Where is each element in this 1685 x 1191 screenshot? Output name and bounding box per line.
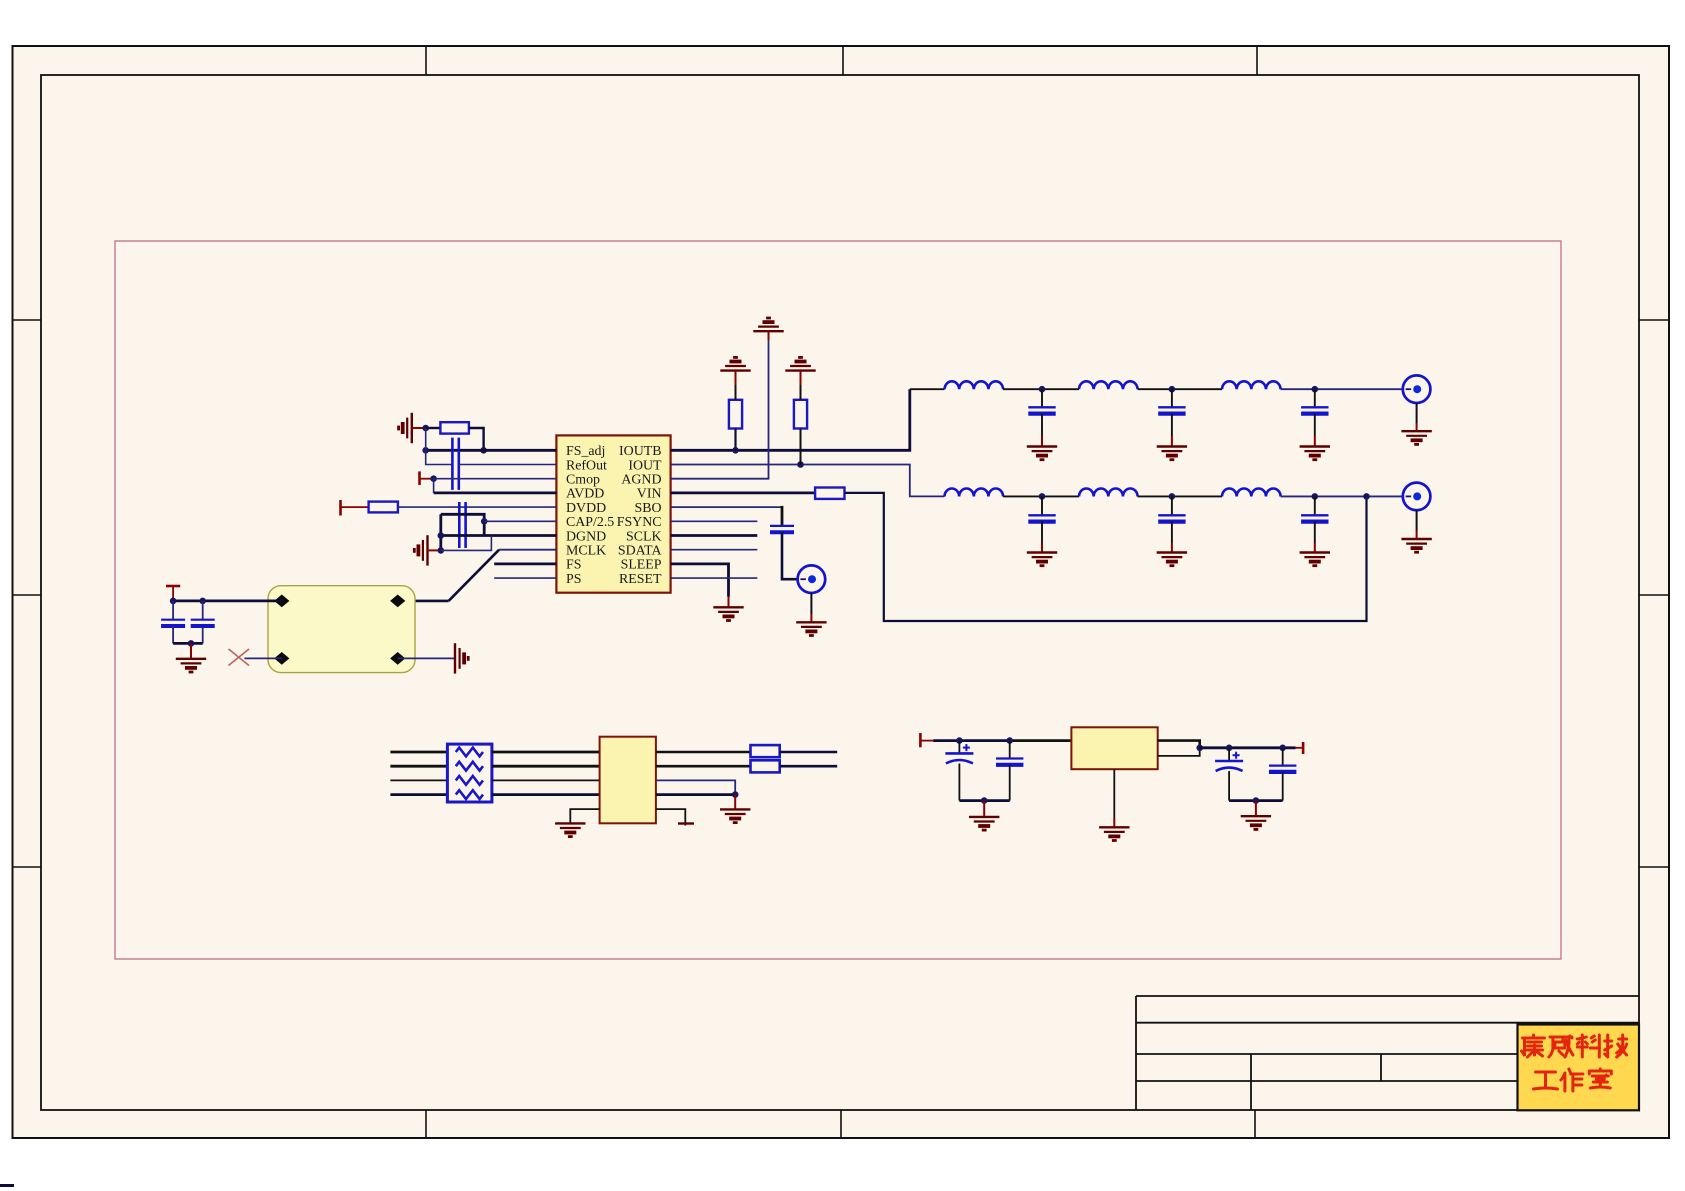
ground GND23 [1241, 816, 1271, 829]
junction rail right [1253, 797, 1260, 804]
capacitor C9 [1028, 515, 1055, 521]
svg-text:IOUT: IOUT [628, 458, 662, 473]
wire to GND18 [734, 795, 736, 810]
wire U2 out row2 [656, 765, 751, 768]
ground GND19 (U2 left) [555, 823, 585, 836]
ground GND6 (inverted, above R4) [785, 357, 815, 370]
power port bar (3.3V out) [1302, 742, 1305, 754]
wire AGND [671, 340, 769, 479]
wire CON2 ground lead [810, 593, 812, 614]
title logo text line2 工作室 [1534, 1069, 1612, 1091]
wire U3 gnd pin [1113, 769, 1115, 818]
svg-text:IOUTB: IOUTB [619, 444, 661, 459]
zone tick right 1 [1639, 319, 1669, 321]
wire U2 gnd right [656, 809, 685, 825]
wire R7 out [780, 765, 838, 768]
crystal pin diamond 4 [390, 652, 405, 665]
inductor L5 [1079, 489, 1138, 497]
connector CON1 [1403, 375, 1431, 403]
wire MCLK [499, 549, 556, 551]
power port bar (crystal VCC) [166, 585, 180, 588]
capacitor C6 ground lead [1041, 414, 1043, 436]
capacitor C11 ground lead [1314, 522, 1316, 543]
capacitor C9 lead [1041, 496, 1043, 515]
capacitor C10 ground lead [1171, 522, 1173, 543]
zone tick bottom 1 [425, 1110, 427, 1138]
svg-text:FS_adj: FS_adj [566, 444, 605, 459]
capacitor C15 lead2 [1282, 772, 1284, 801]
capacitor C12 lead [958, 741, 960, 754]
zone tick right 3 [1639, 866, 1669, 868]
resistor R2 [369, 502, 398, 513]
wire CON1 ground lead [1416, 403, 1418, 423]
wire MCLK diagonal [449, 550, 500, 601]
ground GND2 (rotated, DGND) [414, 535, 427, 565]
ground bar GND20 (U2 right) [678, 822, 694, 824]
wire PS stub [494, 577, 556, 579]
wire CAP/2.5 loop [441, 514, 484, 535]
wire U2 out row1 [656, 751, 751, 754]
inductor L2 [1079, 381, 1138, 389]
wire cap bottom rail [173, 642, 203, 645]
no-connect X [229, 649, 250, 666]
zone tick left 1 [13, 319, 42, 321]
junction C7 [1169, 386, 1176, 393]
capacitor C13 [996, 759, 1023, 765]
svg-text:CAP/2.5: CAP/2.5 [566, 515, 614, 530]
wire IOUT [671, 465, 945, 497]
ground GND12 [1300, 447, 1330, 460]
junction rail left [981, 797, 988, 804]
wire out lead [1296, 747, 1304, 749]
bus wire D1 [390, 765, 447, 768]
svg-text:Cmop: Cmop [566, 473, 600, 488]
wire SCLK stub [671, 534, 758, 537]
connector CON2 [798, 565, 826, 593]
wire U2 out row4 [656, 793, 735, 796]
power port bar (VIN supply) [919, 733, 922, 747]
ground GND10 [1027, 447, 1057, 460]
junction C6 [1039, 386, 1046, 393]
zone tick top 1 [425, 46, 427, 75]
zone tick bottom 3 [1254, 1110, 1256, 1138]
wire out rail [1200, 746, 1296, 749]
svg-text:SLEEP: SLEEP [621, 558, 662, 573]
IC U2 body [600, 737, 656, 824]
wire DVDD [398, 506, 557, 508]
svg-text:MCLK: MCLK [566, 544, 606, 559]
wire U2 out row3 [656, 780, 735, 794]
inductor L6 [1222, 489, 1281, 497]
resistor pack RP1 [447, 744, 492, 802]
wire L3-CON1 [1281, 388, 1403, 390]
junction FS_adj left [422, 447, 429, 454]
capacitor C15 lead [1282, 748, 1284, 766]
resistor R3 lead top [735, 385, 737, 400]
wire RESET stub [671, 577, 758, 579]
capacitor C7 ground lead [1171, 414, 1173, 436]
svg-text:PS: PS [566, 572, 581, 587]
title block table [1136, 996, 1639, 1110]
junction C14 [1226, 745, 1233, 752]
capacitor C13 lead [1009, 741, 1011, 759]
junction C15 [1279, 745, 1286, 752]
inductor L3 [1222, 381, 1281, 389]
junction R3 tap [732, 447, 739, 454]
ground GND14 [1027, 553, 1057, 566]
resistor R6 [751, 745, 780, 757]
junction C11 [1312, 493, 1319, 500]
junction U3 out [1196, 745, 1203, 752]
bus wire D0 [390, 751, 447, 754]
junction rows 3-4 [732, 791, 739, 798]
wire L5-L6 [1138, 495, 1222, 497]
capacitor C2 (tall plates) [458, 502, 461, 548]
wire node A down to RefOut [426, 428, 453, 465]
power port bar (DVDD) [339, 500, 342, 516]
junction C10 [1169, 493, 1176, 500]
junction VIN return [1363, 493, 1370, 500]
wire FS_adj [426, 449, 557, 452]
capacitor C6 [1028, 407, 1055, 413]
svg-text:DVDD: DVDD [566, 501, 606, 516]
crystal module Y1 [268, 586, 415, 673]
ground GND17 (CON3) [1401, 539, 1431, 552]
power port bar (Cmop) [418, 471, 421, 485]
wire cap rail left [959, 799, 1009, 802]
ground GND3 (crystal caps) [176, 659, 206, 672]
wire crystal supply [173, 600, 282, 603]
bus wire D2 [390, 779, 447, 781]
ground GND11 [1157, 447, 1187, 460]
title logo text line1 康威科技 [1522, 1035, 1627, 1057]
capacitor C7 [1158, 407, 1185, 413]
ground GND4 (rotated right) [455, 643, 468, 673]
zone tick top 2 [842, 46, 844, 75]
svg-text:VIN: VIN [637, 487, 662, 502]
wire AGND red tip [768, 331, 770, 340]
capacitor C8 ground lead [1314, 414, 1316, 436]
capacitor C14 lead2 [1228, 771, 1230, 801]
svg-text:FS: FS [566, 558, 581, 573]
wire RefOut [459, 464, 557, 466]
resistor R7 [751, 760, 780, 772]
wire Cmop lead [420, 478, 434, 480]
wire L1-L2 [1003, 388, 1079, 390]
bus wire D3 [390, 793, 447, 796]
zone tick right 2 [1639, 594, 1669, 596]
capacitor C4 lead [202, 601, 204, 620]
wire L2-L3 [1138, 388, 1222, 390]
inductor L1 [945, 381, 1004, 389]
wire RP1-U2 row1 [492, 751, 600, 754]
wire SDATA stub [671, 549, 758, 551]
wire rail to GND23 [1255, 801, 1257, 817]
wire SLEEP ground lead [728, 597, 730, 608]
wire Cmop [434, 478, 557, 480]
ground GND18 [720, 809, 750, 822]
capacitor C8 [1301, 407, 1328, 413]
capacitor C8 lead [1314, 389, 1316, 407]
resistor R4 lead bottom [800, 429, 802, 465]
ground GND1 (rotated, FS_adj network) [399, 413, 412, 443]
wire rail to ground [190, 643, 192, 658]
resistor R3 lead bottom [734, 429, 736, 451]
junction C8 [1312, 386, 1319, 393]
wire crystal pin4 [398, 657, 455, 659]
zone tick left 2 [13, 594, 42, 596]
crystal pin diamond 2 [390, 595, 405, 608]
wire crystal pin3 [244, 657, 281, 659]
crystal pin diamond 3 [274, 652, 289, 665]
capacitor C14 lead [1228, 748, 1230, 761]
junction R4 tap [797, 461, 804, 468]
resistor R4 lead top [800, 385, 802, 400]
wire DGND [441, 534, 557, 537]
wire VIN [671, 491, 816, 494]
wire SBO [671, 506, 782, 508]
capacitor C12 lead2 [958, 764, 960, 801]
wire RP1-U2 row4 [492, 793, 600, 796]
ground GND21 [969, 817, 999, 830]
zone tick top 3 [1256, 46, 1258, 75]
ground GND16 [1300, 553, 1330, 566]
svg-text:SCLK: SCLK [626, 529, 662, 544]
wire AVDD [434, 491, 557, 494]
wire supply to regulator [933, 739, 1010, 742]
wire rail to GND21 [983, 801, 985, 817]
ground GND13 (CON1) [1401, 431, 1431, 444]
wire supply lead [920, 740, 933, 742]
regulator U3 body [1071, 727, 1157, 769]
capacitor C4 lead2 [202, 626, 204, 643]
node A junction [422, 425, 429, 432]
svg-text:AVDD: AVDD [566, 487, 604, 502]
junction GND2 [438, 547, 445, 554]
capacitor C5 [770, 526, 794, 532]
IC U1 DAC body [556, 435, 670, 592]
capacitor C11 lead [1314, 496, 1316, 515]
ground GND22 (U3) [1099, 827, 1129, 840]
junction C3 tap [170, 598, 177, 605]
svg-text:SDATA: SDATA [618, 544, 662, 559]
resistor R1 lead left [426, 427, 441, 429]
wire FSYNC stub [671, 520, 758, 522]
capacitor C14 (polarized) [1215, 752, 1243, 771]
capacitor C6 lead [1041, 389, 1043, 407]
wire GND2 lead [428, 549, 441, 551]
resistor R3 [729, 400, 742, 429]
capacitor C3 lead2 [172, 626, 174, 643]
ground GND9 (SLEEP) [713, 607, 743, 620]
wire VIN to bottom run [845, 493, 1367, 621]
junction DGND [438, 532, 445, 539]
svg-text:FSYNC: FSYNC [617, 515, 662, 530]
capacitor C10 lead [1171, 496, 1173, 515]
capacitor C3 lead [172, 601, 174, 620]
wire L6-CON3 [1281, 495, 1403, 497]
wire SLEEP [671, 564, 729, 597]
wire SBO drop [781, 506, 784, 526]
resistor R5 [815, 488, 844, 499]
wire U3 out top [1158, 741, 1200, 748]
junction CAP/2.5 [481, 518, 488, 525]
ground GND8 (CON2) [796, 622, 826, 635]
capacitor C13 lead2 [1009, 765, 1011, 801]
crystal pin diamond 1 [274, 595, 289, 608]
ground GND15 [1157, 553, 1187, 566]
title block logo box [1518, 1025, 1640, 1111]
wire IOUTB [671, 389, 910, 450]
RP1 element 3 [456, 776, 483, 785]
wire IOUTB to L1 [910, 388, 945, 390]
RP1 element 4 [456, 790, 483, 799]
wire crystal top right [398, 600, 449, 603]
junction on FS_adj [480, 447, 487, 454]
drawing area pink frame [115, 241, 1561, 959]
svg-text:AGND: AGND [621, 473, 661, 488]
wire ground jog to DGND [441, 536, 492, 551]
junction rail [188, 640, 195, 647]
junction C4 tap [199, 598, 206, 605]
RP1 element 1 [456, 748, 483, 757]
junction C13 [1006, 737, 1013, 744]
wire RP1-U2 row2 [492, 765, 600, 768]
resistor R1 [440, 422, 469, 433]
junction C9 [1039, 493, 1046, 500]
svg-text:DGND: DGND [566, 529, 606, 544]
inductor L4 [945, 489, 1004, 497]
wire GND1 to node A [412, 427, 426, 429]
svg-text:SBO: SBO [634, 501, 661, 516]
zone tick bottom 2 [840, 1110, 842, 1138]
RP1 element 2 [456, 762, 483, 771]
junction C12 [956, 737, 963, 744]
junction Cmop [430, 475, 437, 482]
capacitor C4 [191, 620, 215, 626]
capacitor C1 (series RefOut, tall plates) [451, 438, 454, 490]
wire Cmop to AVDD [433, 479, 435, 493]
capacitor C3 [161, 620, 185, 626]
IC U1 pin name labels [566, 444, 662, 587]
wire power to node [172, 586, 174, 601]
svg-text:RefOut: RefOut [566, 458, 607, 473]
capacitor C7 lead [1171, 389, 1173, 407]
wire RP1-U2 row3 [492, 779, 600, 781]
connector CON3 [1403, 483, 1431, 511]
capacitor C9 ground lead [1041, 522, 1043, 543]
wire R6 out [780, 751, 838, 754]
wire cap rail right [1229, 799, 1283, 802]
wire C5 to CON2 [782, 532, 798, 579]
wire CON3 ground lead [1416, 510, 1418, 530]
svg-text:RESET: RESET [619, 572, 662, 587]
zone tick left 3 [13, 866, 42, 868]
wire DVDD lead [341, 506, 369, 508]
wire CAP/2.5 [484, 520, 556, 522]
wire U2 gnd left [570, 809, 599, 823]
ground GND5 (inverted, above R3) [720, 357, 750, 370]
ground GND7 (inverted, AGND) [753, 318, 783, 331]
capacitor C15 [1269, 766, 1296, 772]
wire DGND left vertical [439, 514, 442, 550]
wire L4-L5 [1003, 495, 1079, 497]
capacitor C12 (polarized) [945, 744, 973, 763]
resistor R1 lead right + drop [469, 428, 484, 450]
wire FS stub [494, 563, 556, 566]
resistor R4 [794, 400, 807, 429]
wire U3 out bottom [1158, 748, 1200, 756]
capacitor C10 [1158, 515, 1185, 521]
capacitor C11 [1301, 515, 1328, 521]
page corner artifact [0, 1184, 14, 1187]
